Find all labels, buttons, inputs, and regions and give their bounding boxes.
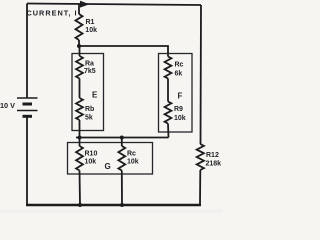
svg-text:G: G [105,162,111,171]
svg-text:R1: R1 [86,19,95,26]
wire: Ra to Rb [79,79,81,99]
box G [68,143,153,175]
resistor R9 10k [165,102,172,124]
svg-text:10k: 10k [174,115,186,122]
wire: node N horizontal [76,137,169,139]
node M junction dot [77,44,81,48]
resistor R1 10k [78,4,80,14]
wire: Rb down to node N [79,120,81,138]
svg-text:CURRENT, I: CURRENT, I [27,9,77,18]
node N junction dot left [78,136,82,140]
svg-text:Ra: Ra [85,61,94,68]
svg-text:Rc: Rc [175,62,184,69]
wire: bottom wire [26,204,201,207]
svg-text:10 V: 10 V [0,101,15,110]
wire: left wire from node A to battery [26,4,28,99]
resistor Rc 6k [165,57,172,79]
svg-text:Rb: Rb [85,106,94,113]
wire: R9 down to node N [167,124,170,138]
battery 10 V [17,98,38,116]
svg-text:R10: R10 [85,150,98,157]
svg-text:E: E [92,91,98,100]
scan tint bottom edge [0,209,223,213]
wire: Rc to R9 [167,79,169,102]
junction dot bottom left [78,203,82,207]
resistor Rb 5k [76,98,83,120]
svg-text:218k: 218k [206,161,222,168]
resistor R12 218k [197,144,204,170]
svg-text:R9: R9 [174,106,183,113]
svg-text:7k5: 7k5 [84,68,96,75]
wire: top wire node A [27,4,201,6]
svg-text:6k: 6k [175,70,183,77]
svg-text:F: F [178,92,183,101]
node N junction dot right [120,136,124,140]
wire: left wire battery to bottom [26,116,28,205]
svg-text:10k: 10k [127,158,139,165]
box E [72,54,104,131]
svg-text:Rc: Rc [127,150,136,157]
wire: R12 to bottom wire [199,170,201,205]
resistor Rc 10k (box G) [121,138,123,147]
svg-text:10k: 10k [85,158,97,165]
svg-text:5k: 5k [85,114,93,121]
box F [159,54,193,133]
junction dot bottom right [120,203,124,207]
current arrow on top wire [80,1,90,8]
wire: node M to F branch [79,46,168,57]
resistor Ra 7k5 [79,46,81,56]
svg-text:10k: 10k [85,27,97,34]
resistor R10 10k [79,138,81,147]
svg-text:R12: R12 [206,152,219,159]
wire: right wire node A down to R12 [200,5,203,144]
